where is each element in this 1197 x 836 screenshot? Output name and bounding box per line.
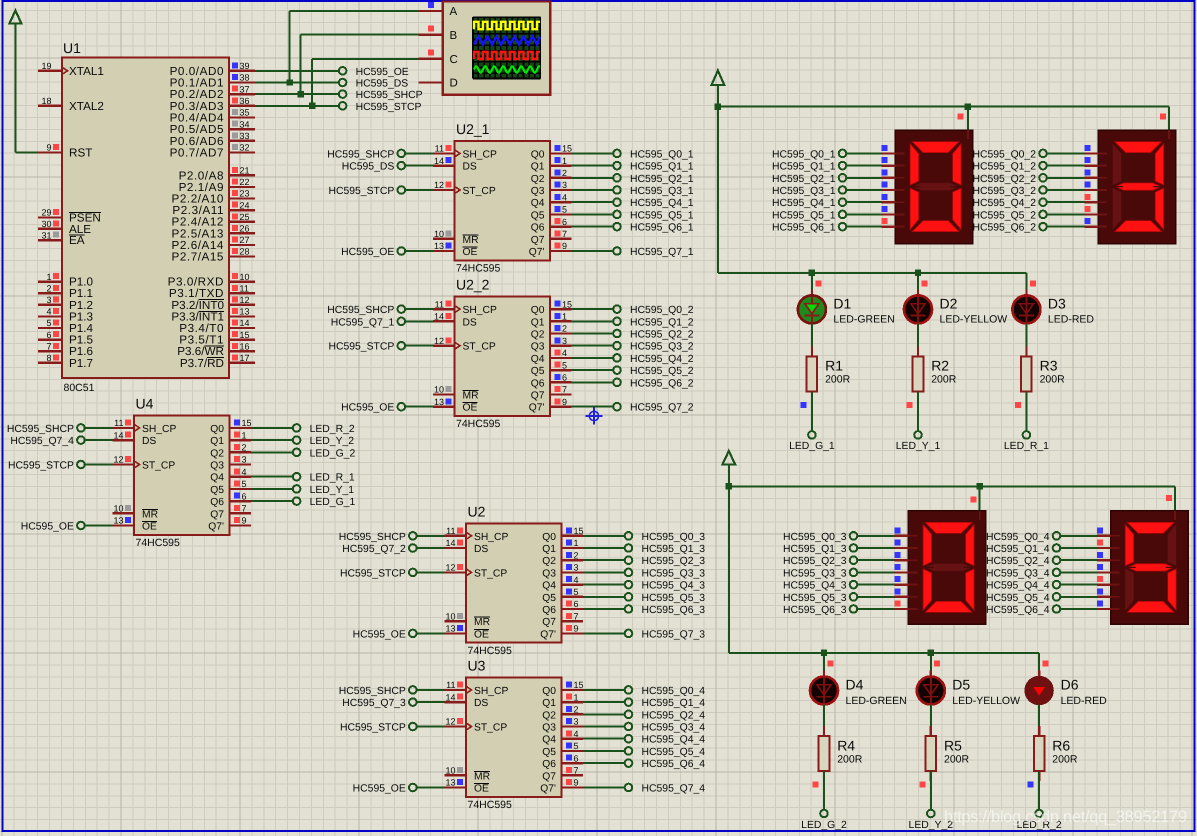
- U1 pin 32: [170, 143, 255, 160]
- svg-text:RST: RST: [69, 146, 92, 159]
- wire U2 Q to HC595_Q5_3: [583, 596, 624, 598]
- terminal HC595_Q7_1: [613, 247, 694, 258]
- U2_1 pin 7: [550, 229, 572, 239]
- wire U3 Q to HC595_Q1_4: [583, 701, 624, 703]
- terminal HC595_Q3_3: [625, 568, 706, 579]
- terminal HC595_Q2_1: [613, 174, 694, 185]
- svg-text:Q0: Q0: [210, 424, 224, 435]
- svg-text:4: 4: [574, 729, 579, 739]
- svg-text:ST_CP: ST_CP: [463, 342, 496, 353]
- display pin stub seg 0: [895, 527, 909, 535]
- U2_2 pin 1: [550, 312, 572, 322]
- terminal HC595_Q1_4: [986, 544, 1060, 555]
- U2 pin 11: [445, 526, 467, 536]
- svg-text:HC595_Q2_2: HC595_Q2_2: [630, 330, 694, 341]
- wire scope B horizontal: [301, 34, 419, 36]
- svg-text:HC595_STCP: HC595_STCP: [328, 342, 394, 353]
- svg-text:Q7: Q7: [531, 235, 545, 246]
- svg-text:LED-GREEN: LED-GREEN: [846, 695, 907, 707]
- resistor R4 200R: [819, 726, 863, 781]
- terminal HC595_SHCP: [7, 424, 85, 435]
- svg-text:8: 8: [46, 353, 51, 363]
- terminal HC595_Q7_3: [625, 629, 706, 640]
- svg-text:80C51: 80C51: [64, 382, 95, 394]
- svg-text:Q1: Q1: [210, 436, 224, 447]
- wire U4 Q to LED_G_1: [251, 500, 293, 502]
- wire D6 to R6: [1038, 705, 1040, 737]
- svg-text:10: 10: [434, 385, 444, 395]
- svg-text:HC595_Q4_2: HC595_Q4_2: [972, 198, 1036, 209]
- wire HC595_STCP to U3: [417, 726, 445, 728]
- wire P0.3 net: [255, 105, 339, 107]
- display pin stub seg 1: [882, 157, 896, 165]
- U1 pin 33: [170, 131, 255, 148]
- svg-text:HC595_Q3_2: HC595_Q3_2: [972, 186, 1036, 197]
- state square R4: [813, 782, 819, 788]
- svg-text:HC595_Q5_4: HC595_Q5_4: [986, 593, 1050, 604]
- terminal HC595_Q6_2: [972, 223, 1046, 234]
- svg-text:2: 2: [46, 283, 51, 293]
- terminal LED_G_2: [801, 810, 847, 831]
- svg-text:U4: U4: [136, 396, 154, 412]
- svg-text:EA: EA: [69, 234, 85, 247]
- svg-text:Q7': Q7': [540, 784, 556, 795]
- 7-segment display DISP2: [1098, 130, 1176, 244]
- wire U3 Q to HC595_Q5_4: [583, 750, 624, 752]
- terminal HC595_Q3_2: [972, 186, 1046, 197]
- svg-text:D2: D2: [940, 295, 958, 311]
- 7-segment display DISP3: [908, 511, 986, 625]
- wire HC595_STCP to U2_1: [405, 189, 433, 191]
- svg-text:9: 9: [574, 778, 579, 788]
- resistor R5 200R: [926, 726, 970, 781]
- svg-text:P2.7/A15: P2.7/A15: [172, 251, 225, 264]
- svg-text:25: 25: [240, 212, 250, 222]
- svg-text:Q7: Q7: [531, 391, 545, 402]
- U1 pin 23: [172, 189, 256, 206]
- U3 pin 11: [445, 680, 467, 690]
- svg-text:HC595_Q3_1: HC595_Q3_1: [630, 186, 694, 197]
- svg-text:5: 5: [562, 205, 567, 215]
- svg-text:MR: MR: [474, 617, 490, 628]
- svg-text:Q6: Q6: [542, 605, 556, 616]
- U1 pin 39: [170, 61, 255, 78]
- svg-text:HC595_SHCP: HC595_SHCP: [7, 424, 74, 435]
- terminal HC595_Q3_4: [625, 723, 706, 734]
- svg-text:HC595_Q3_4: HC595_Q3_4: [986, 568, 1050, 579]
- svg-text:HC595_Q5_4: HC595_Q5_4: [642, 747, 706, 758]
- U1 pin 24: [172, 200, 255, 217]
- LED D4 LED-GREEN: [810, 671, 907, 707]
- state square R3: [1015, 402, 1021, 408]
- display pin stub seg 1: [1084, 157, 1098, 165]
- junction display3 feed: [977, 483, 983, 489]
- wire U2_2 Q to HC595_Q0_2: [572, 308, 613, 310]
- state square D1: [815, 280, 821, 286]
- svg-text:HC595_OE: HC595_OE: [353, 629, 406, 640]
- svg-text:4: 4: [242, 467, 247, 477]
- svg-text:LED_R_1: LED_R_1: [1004, 441, 1049, 452]
- wire HC595_Q3_4 to display: [1061, 571, 1097, 573]
- svg-text:HC595_Q5_2: HC595_Q5_2: [972, 210, 1036, 221]
- wire U2_1 Q to HC595_Q5_1: [572, 213, 613, 215]
- wire HC595_SHCP to U2_1: [405, 152, 433, 154]
- wire U2 Q to HC595_Q4_3: [583, 584, 624, 586]
- svg-text:R1: R1: [825, 358, 843, 374]
- display pin stub seg 2: [1084, 169, 1098, 177]
- svg-text:9: 9: [562, 397, 567, 407]
- wire to scope C: [311, 59, 313, 106]
- terminal HC595_Q7_4: [625, 784, 706, 795]
- wire U2_1 Q to HC595_Q3_1: [572, 189, 613, 191]
- svg-text:13: 13: [445, 778, 455, 788]
- svg-text:SH_CP: SH_CP: [142, 424, 176, 435]
- display pin stub seg 0: [1084, 145, 1098, 153]
- svg-text:Q2: Q2: [542, 556, 556, 567]
- svg-text:7: 7: [574, 766, 579, 776]
- state square display4 common: [1166, 495, 1172, 501]
- wire top bus group1: [718, 106, 1169, 108]
- terminal LED_Y_1: [293, 485, 355, 496]
- svg-text:36: 36: [240, 96, 250, 106]
- svg-text:HC595_Q0_2: HC595_Q0_2: [972, 149, 1036, 160]
- svg-text:1: 1: [46, 272, 51, 282]
- wire left rail group1: [717, 107, 719, 273]
- svg-text:MR: MR: [463, 391, 479, 402]
- display pin stub seg 6: [1097, 601, 1111, 609]
- LED D6 LED-RED: [1024, 671, 1107, 707]
- svg-text:https://blog.csdn.net/qq_38952: https://blog.csdn.net/qq_38952179: [944, 808, 1187, 826]
- wire U2_2 Q to HC595_Q2_2: [572, 333, 613, 335]
- svg-text:200R: 200R: [1052, 753, 1078, 765]
- svg-text:HC595_Q4_1: HC595_Q4_1: [772, 198, 836, 209]
- svg-text:15: 15: [242, 418, 252, 428]
- svg-text:4: 4: [46, 307, 51, 317]
- wire scope C horizontal: [312, 58, 419, 60]
- svg-text:Q1: Q1: [531, 162, 545, 173]
- display pin stub seg 6: [1084, 218, 1098, 226]
- terminal HC595_DS: [339, 79, 408, 90]
- wire bus to D1: [811, 273, 813, 295]
- svg-text:HC595_Q0_3: HC595_Q0_3: [783, 532, 847, 543]
- U1 pin 19: [38, 61, 104, 78]
- U2_2 pin 12: [433, 336, 455, 346]
- svg-text:HC595_Q7_4: HC595_Q7_4: [10, 436, 74, 447]
- svg-text:Q0: Q0: [531, 305, 545, 316]
- U1 pin 28: [172, 247, 256, 264]
- wire U3 Q to HC595_Q4_4: [583, 738, 624, 740]
- display pin stub seg 3: [895, 564, 909, 572]
- svg-text:200R: 200R: [931, 374, 957, 386]
- svg-text:18: 18: [41, 96, 51, 106]
- svg-text:Q1: Q1: [542, 698, 556, 709]
- svg-text:LED_G_2: LED_G_2: [310, 448, 356, 459]
- wire HC595_Q0_3 to display: [858, 535, 895, 537]
- wire bus to D4: [823, 653, 825, 676]
- svg-text:LED-GREEN: LED-GREEN: [833, 314, 894, 326]
- wire bus to D6: [1038, 653, 1040, 676]
- svg-text:HC595_Q2_4: HC595_Q2_4: [642, 710, 706, 721]
- svg-text:XTAL2: XTAL2: [69, 100, 104, 113]
- svg-text:D: D: [450, 78, 458, 90]
- shift register U2_2 74HC595: [455, 277, 551, 431]
- svg-text:3: 3: [562, 336, 567, 346]
- junction D5: [928, 650, 934, 656]
- svg-text:HC595_SHCP: HC595_SHCP: [327, 305, 394, 316]
- wire U2_1 Q to HC595_Q2_1: [572, 177, 613, 179]
- U2_2 pin 14: [433, 312, 455, 322]
- svg-text:34: 34: [240, 119, 250, 129]
- LED D2 LED-YELLOW: [904, 289, 1007, 325]
- svg-text:7: 7: [574, 611, 579, 621]
- terminal HC595_Q1_1: [772, 162, 846, 173]
- terminal HC595_Q2_2: [613, 330, 694, 341]
- wire HC595_Q1_3 to display: [858, 547, 895, 549]
- svg-text:HC595_Q0_2: HC595_Q0_2: [630, 305, 694, 316]
- svg-text:10: 10: [445, 766, 455, 776]
- terminal HC595_SHCP: [327, 149, 405, 160]
- svg-text:HC595_Q2_1: HC595_Q2_1: [772, 174, 836, 185]
- wire HC595_Q7_3 to U3: [417, 701, 445, 703]
- wire HC595_Q0_4 to display: [1061, 535, 1097, 537]
- svg-text:Q5: Q5: [542, 593, 556, 604]
- svg-text:DS: DS: [463, 317, 477, 328]
- wire HC595_Q6_2 to display: [1047, 226, 1084, 228]
- svg-text:31: 31: [41, 230, 51, 240]
- display pin stub seg 2: [895, 552, 909, 560]
- svg-text:HC595_Q4_3: HC595_Q4_3: [642, 581, 706, 592]
- U1 pin 1: [38, 272, 94, 289]
- display pin stub seg 0: [1097, 527, 1111, 535]
- U2 pin 6: [562, 599, 584, 609]
- U4 pin 7: [230, 504, 252, 514]
- svg-text:3: 3: [574, 717, 579, 727]
- U4 pin 15: [230, 418, 252, 428]
- terminal HC595_Q4_3: [783, 581, 857, 592]
- U3 pin 6: [562, 753, 584, 763]
- svg-text:3: 3: [574, 563, 579, 573]
- svg-text:2: 2: [562, 168, 567, 178]
- U4 pin 6: [230, 491, 252, 501]
- wire P0.0 net: [255, 70, 339, 72]
- terminal HC595_Q0_1: [772, 149, 846, 160]
- terminal HC595_Q5_1: [772, 210, 846, 221]
- svg-text:HC595_Q7_4: HC595_Q7_4: [642, 784, 706, 795]
- svg-text:24: 24: [240, 200, 250, 210]
- svg-text:2: 2: [574, 550, 579, 560]
- U4 pin 1: [230, 430, 252, 440]
- wire R2 to LED_Y_1: [917, 392, 919, 431]
- svg-text:Q0: Q0: [542, 532, 556, 543]
- wire HC595_Q4_1 to display: [847, 201, 882, 203]
- svg-text:13: 13: [445, 624, 455, 634]
- terminal HC595_SHCP: [339, 90, 423, 101]
- svg-text:U1: U1: [63, 40, 81, 56]
- svg-text:Q2: Q2: [531, 330, 545, 341]
- svg-text:C: C: [450, 54, 458, 66]
- svg-text:15: 15: [240, 330, 250, 340]
- wire HC595_Q5_1 to display: [847, 213, 882, 215]
- svg-text:Q3: Q3: [542, 568, 556, 579]
- svg-text:HC595_Q0_4: HC595_Q0_4: [986, 532, 1050, 543]
- svg-text:SH_CP: SH_CP: [463, 149, 497, 160]
- wire HC595_Q4_4 to display: [1061, 584, 1097, 586]
- terminal HC595_STCP: [339, 102, 422, 113]
- wire HC595_SHCP to U3: [417, 689, 445, 691]
- display pin stub seg 3: [1084, 182, 1098, 190]
- LED D1 LED-GREEN: [798, 289, 895, 325]
- svg-text:P0.7/AD7: P0.7/AD7: [170, 146, 224, 159]
- svg-text:6: 6: [242, 491, 247, 501]
- svg-text:LED-YELLOW: LED-YELLOW: [952, 695, 1020, 707]
- svg-text:11: 11: [114, 418, 123, 428]
- oscilloscope pin B: [419, 25, 458, 41]
- state square D5: [934, 660, 940, 666]
- svg-text:13: 13: [434, 241, 444, 251]
- terminal HC595_Q7_3: [342, 698, 416, 709]
- U3 pin 4: [562, 729, 584, 739]
- display pin stub seg 4: [882, 194, 896, 202]
- wire HC595_Q3_1 to display: [847, 189, 882, 191]
- U2_1 pin 1: [550, 156, 572, 166]
- terminal HC595_Q0_3: [625, 532, 706, 543]
- terminal HC595_Q4_4: [625, 735, 706, 746]
- junction P0.3/C: [309, 103, 315, 109]
- display pin stub seg 5: [1097, 588, 1111, 596]
- U3 pin 5: [562, 741, 584, 751]
- wire HC595_Q2_1 to display: [847, 177, 882, 179]
- svg-text:74HC595: 74HC595: [456, 418, 501, 430]
- wire to scope B: [300, 35, 302, 95]
- wire to RST pin: [15, 151, 38, 153]
- display pin stub seg 6: [882, 218, 896, 226]
- U2_2 pin 15: [550, 299, 572, 309]
- svg-text:21: 21: [240, 166, 250, 176]
- terminal HC595_Q1_2: [972, 162, 1046, 173]
- svg-text:HC595_Q4_4: HC595_Q4_4: [986, 581, 1050, 592]
- svg-text:HC595_Q1_4: HC595_Q1_4: [986, 544, 1050, 555]
- U1 pin 18: [38, 96, 104, 113]
- svg-text:LED_R_1: LED_R_1: [310, 473, 355, 484]
- svg-text:Q7': Q7': [529, 403, 545, 414]
- state square D6: [1043, 660, 1049, 666]
- junction D4: [821, 650, 827, 656]
- svg-text:HC595_OE: HC595_OE: [341, 403, 394, 414]
- display pin stub seg 1: [895, 540, 909, 548]
- svg-text:26: 26: [240, 224, 250, 234]
- svg-text:Q1: Q1: [542, 544, 556, 555]
- svg-text:Q5: Q5: [542, 747, 556, 758]
- svg-text:MR: MR: [463, 235, 479, 246]
- U1 pin 21: [179, 166, 255, 183]
- wire left rail group2: [728, 486, 730, 652]
- svg-text:HC595_Q2_3: HC595_Q2_3: [642, 556, 706, 567]
- U4 pin 9: [230, 516, 252, 526]
- U2_1 pin 15: [550, 144, 572, 154]
- terminal HC595_Q5_2: [972, 210, 1046, 221]
- U4 pin 10: [113, 504, 135, 514]
- svg-text:HC595_Q5_1: HC595_Q5_1: [630, 210, 694, 221]
- svg-text:Q2: Q2: [542, 710, 556, 721]
- svg-text:HC595_Q4_2: HC595_Q4_2: [630, 354, 694, 365]
- U3 pin 1: [562, 692, 584, 702]
- svg-text:10: 10: [113, 504, 123, 514]
- svg-text:HC595_Q1_3: HC595_Q1_3: [783, 544, 847, 555]
- U1 pin 4: [38, 307, 93, 324]
- U1 pin 27: [172, 235, 256, 252]
- svg-text:LED-RED: LED-RED: [1061, 695, 1108, 707]
- svg-text:13: 13: [240, 307, 250, 317]
- svg-text:HC595_Q6_2: HC595_Q6_2: [630, 378, 694, 389]
- svg-text:DS: DS: [474, 698, 488, 709]
- display pin stub seg 5: [882, 206, 896, 214]
- wire U3 Q to HC595_Q2_4: [583, 713, 624, 715]
- terminal LED_G_1: [293, 497, 356, 508]
- U1 pin 34: [170, 119, 255, 136]
- wire U4 Q to LED_G_2: [251, 451, 293, 453]
- U1 pin 38: [170, 73, 255, 90]
- svg-text:3: 3: [46, 295, 51, 305]
- svg-text:HC595_SHCP: HC595_SHCP: [356, 90, 423, 101]
- wire U4 Q to LED_Y_1: [251, 488, 293, 490]
- U2_2 pin 6: [550, 373, 572, 383]
- svg-text:39: 39: [240, 61, 250, 71]
- resistor R6 200R: [1034, 726, 1078, 781]
- resistor R1 200R: [807, 346, 851, 401]
- svg-text:HC595_Q5_1: HC595_Q5_1: [772, 210, 836, 221]
- U1 pin 15: [179, 330, 255, 347]
- wire U2_2 Q to HC595_Q3_2: [572, 345, 613, 347]
- svg-text:HC595_STCP: HC595_STCP: [8, 461, 74, 472]
- terminal HC595_Q3_1: [772, 186, 846, 197]
- wire P0.2 net: [255, 93, 339, 95]
- svg-text:Q2: Q2: [210, 448, 224, 459]
- svg-text:LED_Y_1: LED_Y_1: [896, 441, 941, 452]
- U2_2 pin 2: [550, 324, 572, 334]
- U1 pin 16: [177, 341, 255, 358]
- wire HC595_Q2_2 to display: [1047, 177, 1084, 179]
- U3 pin 13: [445, 778, 467, 788]
- svg-text:HC595_SHCP: HC595_SHCP: [327, 149, 394, 160]
- terminal HC595_Q7_2: [342, 544, 416, 555]
- U3 pin 9: [562, 778, 584, 788]
- shift register U4 74HC595: [134, 396, 230, 550]
- svg-text:OE: OE: [474, 784, 489, 795]
- svg-text:74HC595: 74HC595: [136, 537, 181, 549]
- svg-text:OE: OE: [463, 247, 478, 258]
- svg-text:74HC595: 74HC595: [456, 263, 501, 275]
- terminal HC595_STCP: [340, 723, 417, 734]
- svg-text:HC595_Q5_3: HC595_Q5_3: [783, 593, 847, 604]
- wire U2_1 Q to HC595_Q4_1: [572, 201, 613, 203]
- svg-text:13: 13: [434, 397, 444, 407]
- junction P0.1/A: [286, 79, 292, 85]
- U3 pin 15: [562, 680, 584, 690]
- svg-text:R4: R4: [837, 737, 855, 753]
- U1 pin 2: [38, 283, 93, 300]
- U1 pin 5: [38, 318, 94, 335]
- svg-text:HC595_Q7_2: HC595_Q7_2: [630, 403, 694, 414]
- svg-text:B: B: [450, 30, 458, 42]
- svg-text:LED-YELLOW: LED-YELLOW: [940, 314, 1008, 326]
- wire HC595_Q1_1 to display: [847, 165, 882, 167]
- U1 pin 12: [171, 295, 255, 312]
- svg-text:HC595_STCP: HC595_STCP: [356, 102, 422, 113]
- terminal LED_G_1: [789, 431, 835, 452]
- resistor R3 200R: [1021, 346, 1065, 401]
- wire U2 Q to HC595_Q0_3: [583, 535, 624, 537]
- svg-text:6: 6: [562, 217, 567, 227]
